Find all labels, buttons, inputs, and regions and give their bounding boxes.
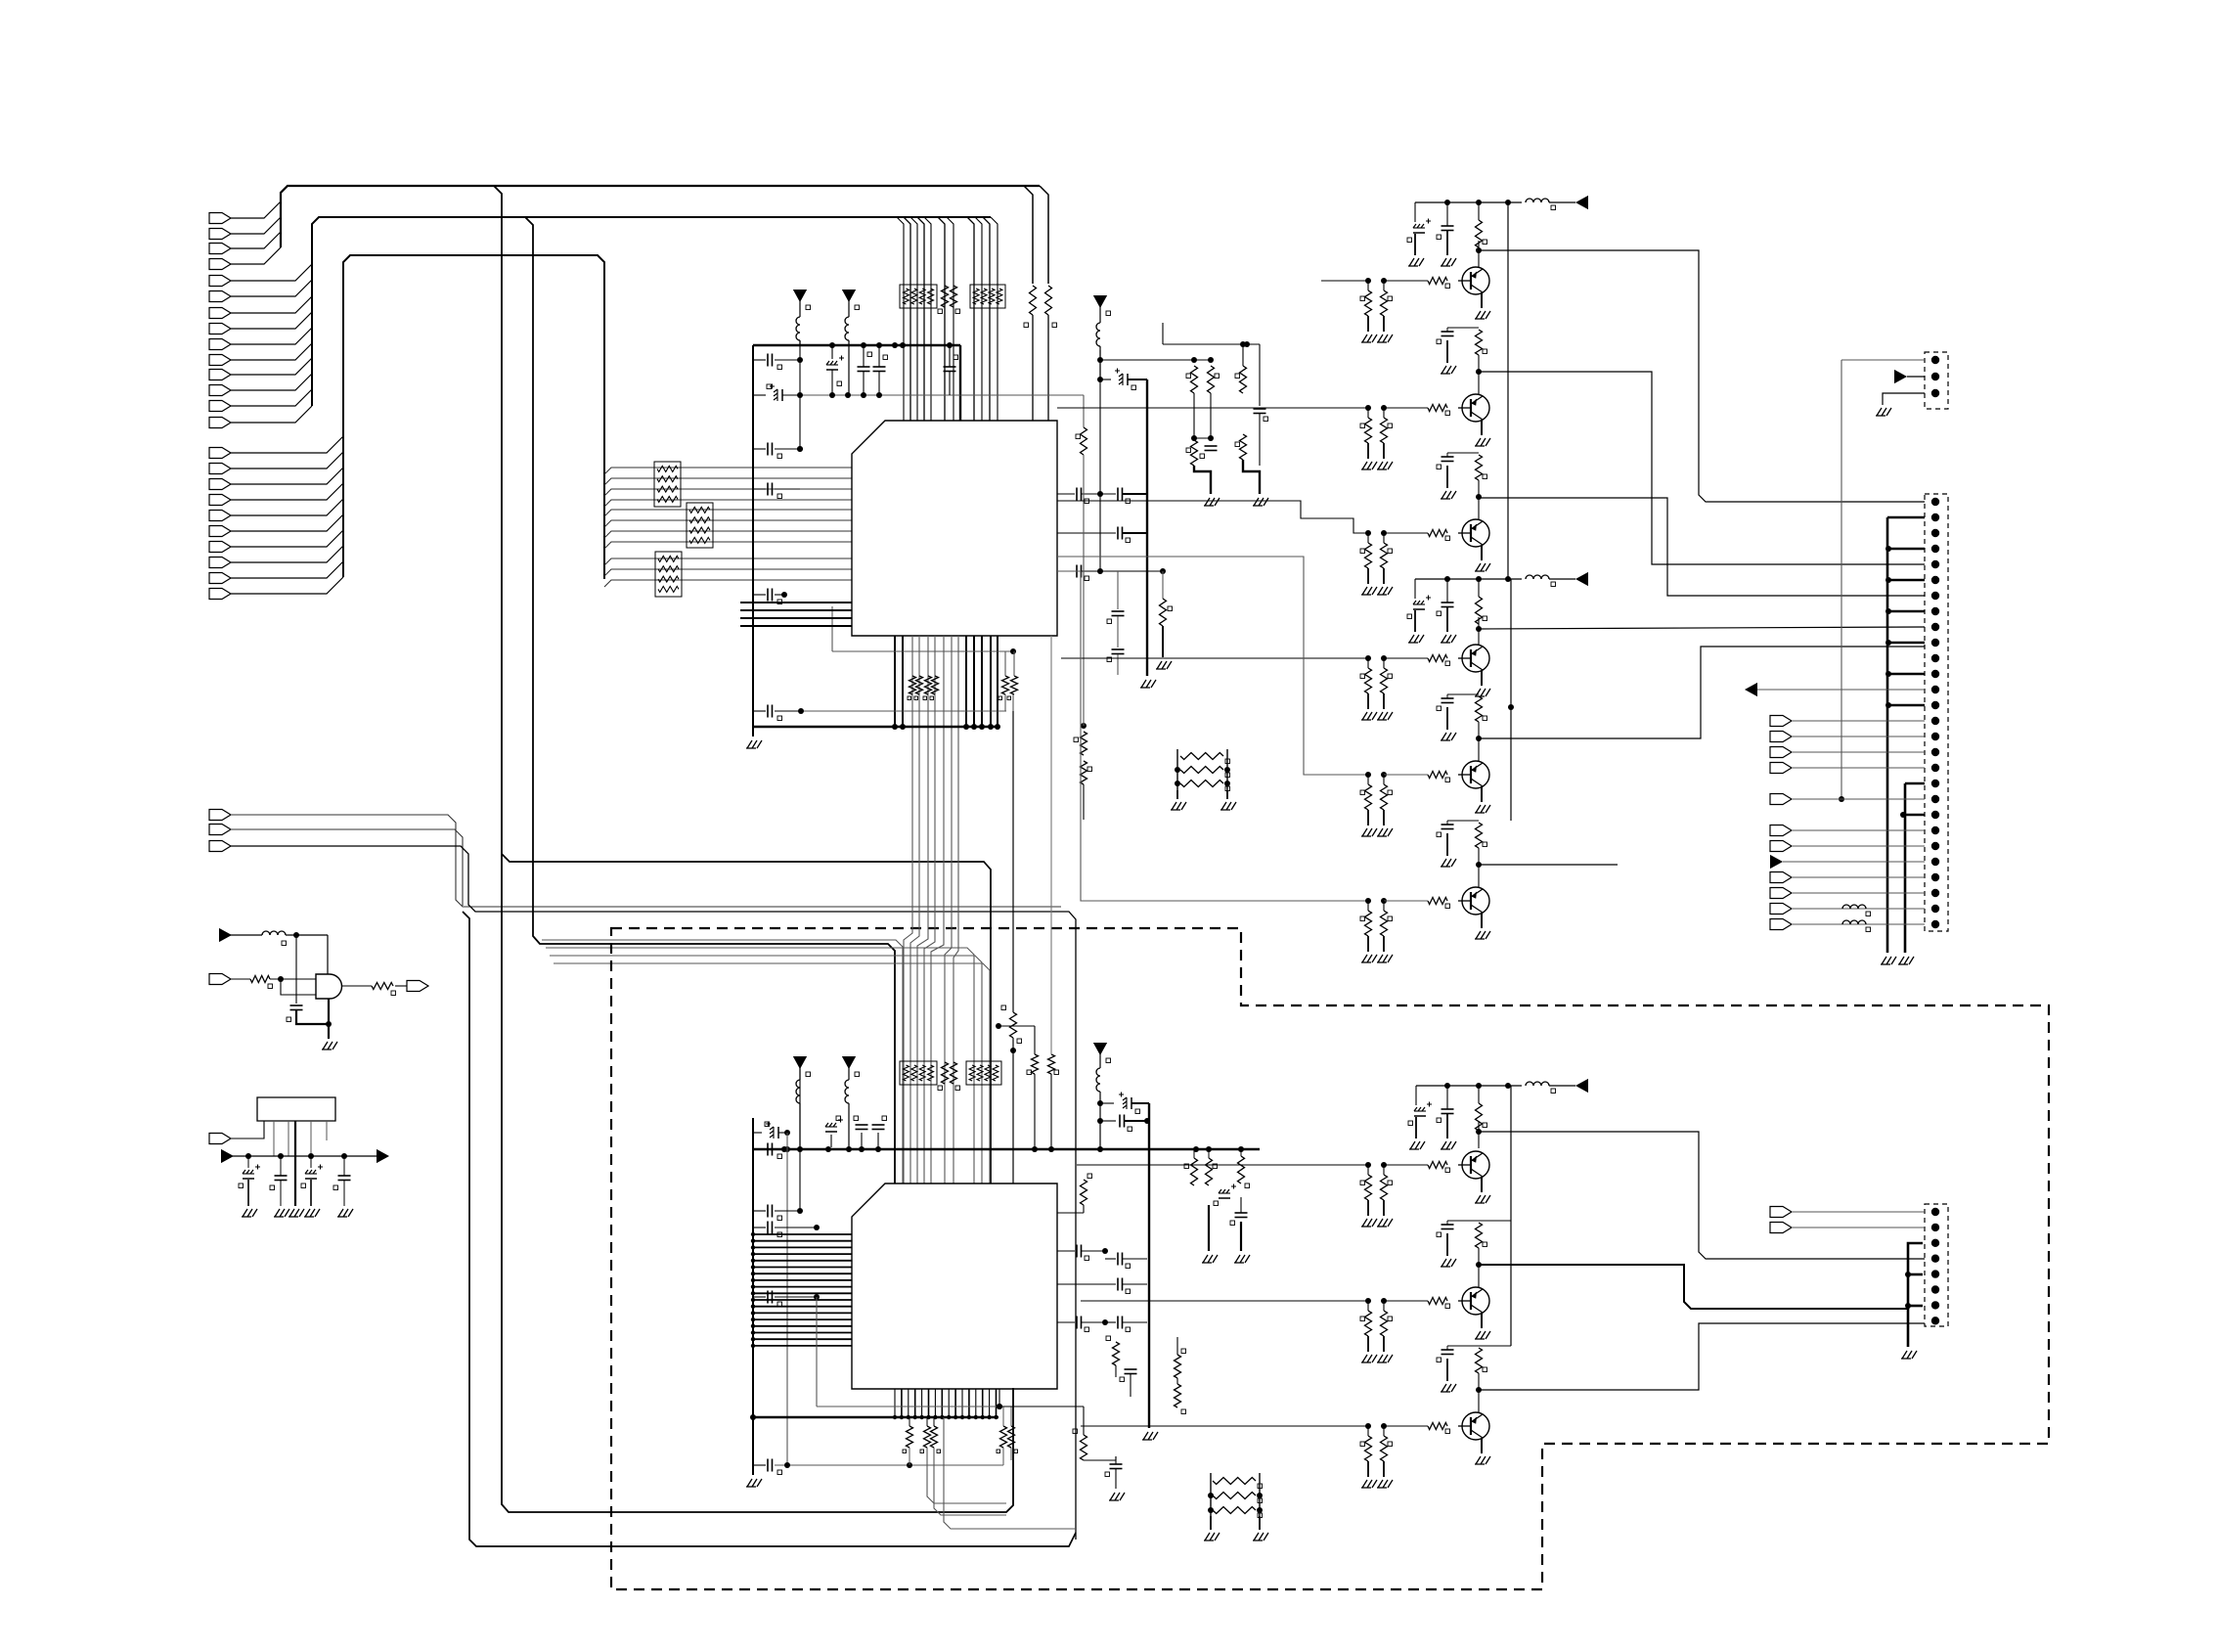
- connector pin: [209, 324, 231, 335]
- resistor R23: [1186, 440, 1198, 466]
- wire: [231, 483, 343, 500]
- wire: [1097, 357, 1214, 363]
- junction: [919, 1415, 923, 1419]
- wire: [989, 1389, 991, 1417]
- wire: [1003, 1448, 1011, 1465]
- wire: [463, 912, 1076, 1546]
- transistor Q: [1365, 761, 1489, 788]
- wire: [1479, 1132, 1925, 1259]
- resistor bracket: [1204, 1473, 1268, 1540]
- connector pin: [1770, 904, 1925, 915]
- ground: [288, 1209, 304, 1217]
- wire: [965, 636, 967, 727]
- capacitor C13: [1057, 527, 1147, 543]
- connector pin: [209, 291, 231, 302]
- connector pin: [1931, 1255, 1939, 1263]
- ground: [1898, 957, 1914, 964]
- wire: [786, 1133, 788, 1465]
- transistor Q: [1365, 267, 1489, 294]
- wire: [1883, 393, 1925, 405]
- wire thick: [1194, 466, 1211, 494]
- wire: [1012, 1050, 1014, 1183]
- wire: [954, 636, 958, 1183]
- junction: [995, 724, 1000, 730]
- resistor network RN5: [970, 285, 1005, 308]
- wire: [231, 829, 463, 906]
- ground: [1881, 957, 1896, 964]
- wire: [894, 636, 896, 727]
- wire: [751, 1245, 852, 1249]
- wire: [231, 978, 250, 980]
- wire: [611, 928, 2049, 1589]
- junction: [781, 1146, 1199, 1152]
- resistor R16: [1175, 1337, 1186, 1378]
- wire: [914, 1389, 916, 1417]
- wire: [947, 217, 954, 421]
- wire: [1479, 250, 1925, 502]
- wire: [1099, 354, 1101, 380]
- wire: [546, 948, 974, 1183]
- resistor R9: [1206, 1149, 1218, 1185]
- wire: [231, 452, 343, 469]
- junction: [1010, 1048, 1016, 1053]
- wire thick: [1885, 608, 1925, 614]
- wire: [270, 976, 316, 982]
- transistor Q: [1365, 1151, 1489, 1179]
- junction: [829, 342, 953, 348]
- wire: [1083, 455, 1085, 726]
- resistor: [1007, 676, 1018, 700]
- resistor R6: [1235, 341, 1247, 393]
- capacitor C45: [301, 1156, 323, 1206]
- wire thick: [1885, 702, 1925, 708]
- capacitor C30: [1057, 1245, 1108, 1261]
- connector pin: [1931, 686, 1939, 693]
- wire: [1083, 395, 1085, 427]
- wire: [740, 602, 852, 603]
- wire: [941, 1389, 943, 1417]
- connector J3: [1925, 494, 1948, 931]
- junction: [988, 724, 994, 730]
- wire: [342, 985, 372, 987]
- inductor L8: [1096, 1052, 1100, 1149]
- connector pin: [209, 339, 231, 350]
- wire: [1040, 186, 1048, 284]
- connector pin: [209, 259, 231, 270]
- wire: [1507, 202, 1509, 579]
- wire: [1839, 360, 1844, 802]
- wire: [934, 1389, 936, 1417]
- connector pin: [1770, 716, 1925, 727]
- wire: [1479, 1265, 1909, 1309]
- junction: [892, 724, 898, 730]
- wire: [798, 694, 1013, 714]
- wire: [1478, 617, 1480, 646]
- wire: [1057, 407, 1368, 409]
- connector pin: [1931, 576, 1939, 584]
- resistor bracket: [1171, 749, 1236, 810]
- wire: [753, 726, 998, 729]
- connector pin: [1931, 1224, 1939, 1231]
- wire: [1097, 350, 1103, 574]
- connector pin: [1931, 1301, 1939, 1309]
- capacitor C21: [825, 1116, 843, 1147]
- wire: [902, 636, 904, 727]
- ground: [1876, 408, 1891, 416]
- wire: [934, 1448, 1006, 1515]
- connector pin: [1931, 373, 1939, 380]
- connector pin: [1931, 748, 1939, 756]
- wire: [231, 264, 312, 281]
- wire: [604, 489, 852, 496]
- capacitor C16: [1200, 446, 1218, 459]
- capacitor C6: [753, 705, 800, 721]
- wire: [973, 636, 975, 727]
- wire thick: [1208, 1205, 1210, 1251]
- wire: [961, 1389, 963, 1417]
- wire: [281, 186, 1040, 247]
- connector pin: [1770, 872, 1925, 883]
- resistor R25: [1076, 427, 1087, 455]
- power flag: [842, 290, 860, 310]
- wire: [231, 530, 343, 547]
- wire: [908, 1389, 909, 1417]
- wire: [931, 636, 944, 1183]
- connector pin: [1931, 811, 1939, 819]
- wire: [751, 1330, 852, 1334]
- junction: [926, 1415, 930, 1419]
- wire: [1012, 711, 1014, 1012]
- wire: [991, 217, 998, 421]
- capacitor C50: [1097, 1093, 1149, 1114]
- wire thick: [1885, 640, 1925, 646]
- connector pin: [209, 558, 231, 568]
- connector pin: [1931, 701, 1939, 709]
- connector pin: [209, 244, 231, 254]
- resistor network RN6: [900, 1061, 937, 1085]
- wire: [975, 1389, 977, 1417]
- wire thick: [296, 1010, 332, 1027]
- wire: [502, 854, 991, 1183]
- wire: [981, 636, 983, 727]
- connector pin: [1770, 747, 1925, 758]
- capacitor C44: [270, 1156, 288, 1206]
- resistor network RN7: [966, 1061, 1001, 1085]
- wire: [967, 217, 974, 421]
- junction: [960, 1415, 964, 1419]
- IC U2: [852, 1183, 1057, 1389]
- wire: [751, 1317, 852, 1321]
- resistor pair: [1360, 408, 1393, 469]
- capacitor C31: [1105, 1253, 1147, 1269]
- wire: [1061, 657, 1368, 659]
- wire: [751, 1305, 852, 1309]
- connector pin: [209, 355, 231, 366]
- wire: [1479, 647, 1925, 738]
- resistor RE: [1027, 1054, 1039, 1075]
- signal arrow: [377, 1149, 389, 1163]
- capacitor C19: [1254, 409, 1268, 466]
- connector pin: [209, 511, 231, 521]
- wire: [797, 340, 803, 452]
- capacitor C34: [1105, 1317, 1147, 1332]
- wire: [231, 247, 281, 264]
- ground: [1475, 1313, 1490, 1339]
- wire: [751, 1272, 852, 1275]
- connector pin: [1931, 780, 1939, 787]
- wire: [604, 531, 852, 538]
- wire: [1841, 798, 1925, 800]
- wire: [231, 561, 343, 578]
- wire: [924, 636, 935, 1183]
- resistor RA: [938, 286, 949, 314]
- junction: [893, 1415, 897, 1419]
- ground: [1475, 1438, 1490, 1464]
- wire: [954, 1389, 956, 1417]
- connector pin: [1931, 389, 1939, 397]
- connector pin: [1770, 763, 1925, 774]
- capacitor/resistor collector network: [1437, 453, 1487, 520]
- wire: [928, 1389, 930, 1417]
- connector pin: [1931, 654, 1939, 662]
- resistor: [997, 1426, 1007, 1453]
- resistor network RN2: [687, 503, 713, 548]
- capacitor C42: [287, 1005, 303, 1022]
- resistor R20: [1160, 599, 1173, 626]
- signal arrow: [1770, 855, 1925, 869]
- wire: [975, 217, 982, 421]
- junction: [987, 1415, 991, 1419]
- wire: [751, 1311, 852, 1315]
- wire: [751, 1239, 852, 1243]
- resistor R24: [1235, 434, 1247, 460]
- capacitor C8: [858, 345, 872, 395]
- connector pin: [1931, 639, 1939, 647]
- transistor Q: [1365, 394, 1489, 422]
- ground: [1234, 1255, 1250, 1263]
- inductor L6: [796, 1066, 800, 1147]
- capacitor C10: [944, 345, 958, 395]
- wire: [604, 520, 852, 527]
- resistor R14: [372, 983, 396, 996]
- ground: [322, 1042, 337, 1049]
- wire: [231, 436, 343, 453]
- connector pin: [1931, 560, 1939, 568]
- wire: [231, 358, 312, 375]
- wire: [1033, 315, 1048, 421]
- wire thick: [328, 999, 330, 1039]
- capacitor C25: [753, 1205, 803, 1221]
- regulator U4: [257, 1097, 335, 1121]
- connector pin: [1770, 1223, 1925, 1233]
- ground: [304, 1209, 320, 1217]
- wire: [281, 979, 316, 995]
- resistor pair: [1360, 658, 1393, 720]
- wire: [1024, 186, 1033, 284]
- resistor: [903, 1417, 913, 1465]
- wire: [274, 1121, 327, 1156]
- wire: [525, 217, 895, 1183]
- wire: [990, 636, 992, 727]
- connector pin: [209, 308, 231, 319]
- capacitor/resistor collector network: [1437, 1346, 1511, 1413]
- wire thick: [1900, 812, 1925, 818]
- wire: [752, 345, 754, 737]
- wire thick: [1905, 1272, 1923, 1277]
- wire: [231, 296, 312, 313]
- wire: [604, 468, 852, 474]
- junction: [940, 1415, 944, 1419]
- connector pin: [1931, 1208, 1939, 1216]
- capacitor/resistor collector network: [1437, 1221, 1511, 1288]
- connector pin: [1931, 623, 1939, 631]
- wire thick: [1904, 783, 1907, 953]
- wire: [230, 934, 262, 936]
- signal arrow: [1745, 683, 1925, 696]
- wire: [982, 1389, 984, 1417]
- wire: [231, 312, 312, 329]
- connector pin: [1931, 873, 1939, 881]
- connector pin: [1931, 529, 1939, 537]
- wire: [740, 617, 852, 619]
- wire: [917, 217, 924, 421]
- wire: [604, 569, 852, 576]
- connector pin: [209, 589, 231, 600]
- ground: [1253, 498, 1268, 506]
- wire: [1510, 1086, 1512, 1346]
- resistor RC: [938, 1062, 949, 1091]
- wire: [751, 1291, 852, 1295]
- wire: [924, 217, 931, 421]
- wire: [944, 1417, 1076, 1529]
- wire: [917, 636, 928, 1183]
- resistor R11: [1073, 1429, 1087, 1460]
- wire: [797, 392, 1084, 398]
- connector pin: [1770, 826, 1925, 836]
- transistor Q: [1365, 887, 1489, 915]
- connector pin: [209, 1134, 231, 1144]
- wire: [604, 542, 852, 549]
- resistor: [908, 676, 916, 700]
- wire: [231, 217, 281, 234]
- wire: [1162, 571, 1164, 599]
- power rail / inductor / filter caps: [1407, 196, 1588, 266]
- wire: [1081, 1425, 1368, 1427]
- connector J2: [1925, 352, 1948, 409]
- resistor R4: [1186, 366, 1198, 393]
- wire: [1479, 372, 1925, 564]
- resistor pair: [1360, 1301, 1393, 1362]
- connector pin: [1770, 732, 1925, 742]
- connector pin: [1931, 498, 1939, 506]
- connector pin: [209, 370, 231, 380]
- wire: [231, 546, 343, 562]
- wire: [894, 1389, 896, 1417]
- wire thick: [1887, 516, 1925, 519]
- capacitor C51: [1097, 1115, 1150, 1132]
- wire: [927, 1448, 1006, 1503]
- wire: [901, 1389, 903, 1417]
- resistor: [914, 676, 923, 700]
- connector pin: [209, 810, 231, 821]
- transistor Q: [1365, 1412, 1489, 1440]
- connector pin: [209, 385, 231, 396]
- ground: [1475, 1177, 1490, 1203]
- wire: [753, 345, 960, 421]
- wire: [910, 217, 917, 421]
- resistor: [930, 676, 939, 700]
- ground: [1475, 786, 1490, 813]
- ground: [1475, 545, 1490, 571]
- wire: [996, 1389, 998, 1417]
- wire: [231, 280, 312, 296]
- wire: [604, 580, 852, 587]
- wire: [904, 217, 910, 421]
- wire: [604, 558, 852, 565]
- resistor: [931, 1417, 941, 1453]
- capacitor C1: [753, 354, 803, 370]
- junction: [979, 724, 985, 730]
- wire: [233, 1153, 377, 1159]
- capacitor/resistor collector network: [1437, 694, 1487, 762]
- junction: [1476, 247, 1482, 253]
- wire: [938, 217, 945, 421]
- resistor pair: [1360, 1426, 1393, 1488]
- resistor pair: [1360, 775, 1393, 836]
- wire: [945, 636, 952, 1183]
- wire: [751, 1265, 852, 1269]
- wire: [1479, 864, 1618, 866]
- connector pin: [1931, 889, 1939, 897]
- connector pin: [209, 448, 231, 459]
- ground: [1475, 420, 1490, 446]
- wire: [751, 1344, 852, 1348]
- wire: [1050, 636, 1052, 1149]
- wire thick: [1148, 1103, 1150, 1428]
- junction: [974, 1415, 978, 1419]
- wire: [1479, 1323, 1925, 1390]
- wire: [550, 956, 982, 1183]
- wire: [231, 232, 281, 248]
- wire: [752, 1118, 754, 1475]
- IC U1: [852, 421, 1057, 636]
- junction: [954, 1415, 957, 1419]
- connector pin: [1931, 592, 1939, 600]
- wire: [1081, 1300, 1368, 1302]
- connector pin: [209, 573, 231, 584]
- inductor L9: [262, 931, 287, 946]
- connector pin: [1931, 764, 1939, 772]
- ground: [1202, 1255, 1218, 1263]
- ground: [1475, 670, 1490, 696]
- capacitor C20: [753, 1122, 790, 1139]
- wire: [1321, 280, 1368, 282]
- wire: [904, 636, 912, 1183]
- junction: [997, 1404, 1002, 1409]
- wire: [948, 1389, 950, 1417]
- junction: [947, 1415, 951, 1419]
- connector pin: [1770, 794, 1925, 805]
- resistor R15: [1106, 1336, 1120, 1377]
- wire: [753, 1416, 998, 1419]
- wire thick: [1885, 671, 1925, 677]
- signal arrow: [1894, 370, 1925, 383]
- resistor RF: [1048, 1054, 1059, 1075]
- capacitor C3: [753, 443, 803, 459]
- capacitor C33: [1057, 1317, 1108, 1332]
- wire thick: [1243, 460, 1260, 494]
- ground: [746, 740, 762, 748]
